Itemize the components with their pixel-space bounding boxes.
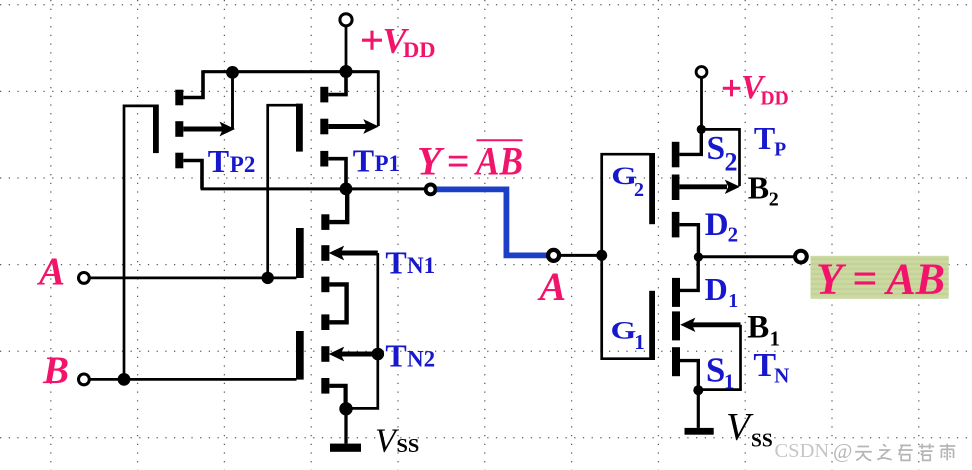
svg-text:P: P: [774, 140, 786, 161]
svg-text:A: A: [36, 250, 65, 293]
wire TP2 gate to node B: [124, 106, 154, 380]
svg-text:T: T: [208, 143, 229, 179]
svg-text:D: D: [705, 271, 728, 307]
junction dot NAND output: [340, 183, 353, 196]
junction dot TN source/VSS: [693, 385, 703, 395]
svg-text:B: B: [747, 310, 769, 346]
svg-text:N1: N1: [407, 253, 435, 278]
label Y = not AB: [417, 139, 523, 184]
node +VDD terminal (left NAND): [340, 14, 352, 26]
gate plate G2: [649, 153, 655, 224]
label TN1: [385, 244, 435, 280]
svg-text:B: B: [42, 349, 69, 392]
transistor TP (inverter): [672, 127, 740, 257]
svg-text:G: G: [611, 317, 637, 345]
wire TP1 gate to node A: [268, 105, 297, 278]
svg-text:D: D: [705, 207, 729, 243]
wire blue net NAND output to inverter input: [437, 189, 548, 255]
node NAND output terminal: [426, 185, 436, 195]
svg-text:N: N: [774, 363, 789, 387]
svg-text:1: 1: [634, 330, 645, 354]
svg-text:N2: N2: [407, 347, 435, 372]
svg-text:Y = AB: Y = AB: [816, 255, 945, 304]
wire VDD stem (inverter): [700, 78, 703, 129]
ground VSS bar (left): [330, 444, 361, 452]
transistor TP1: [296, 70, 379, 189]
junction dot VDD rail / TP1 source: [340, 65, 353, 78]
ground VSS bar (inverter): [685, 428, 714, 435]
wire inverter output: [698, 255, 794, 258]
label G2: [611, 162, 644, 201]
node +VDD terminal (inverter): [696, 67, 707, 78]
label G1: [611, 317, 645, 354]
svg-text:A: A: [537, 264, 567, 309]
wire VSS stem (inverter): [697, 390, 700, 428]
wire inverter input: [559, 254, 602, 257]
svg-text:1: 1: [724, 369, 735, 393]
svg-text:DD: DD: [403, 37, 436, 62]
svg-text:S: S: [706, 351, 725, 390]
label B1: [747, 310, 780, 351]
label B2: [748, 170, 779, 211]
wire gate G1 net: [602, 255, 650, 358]
svg-text:T: T: [754, 120, 775, 156]
wire VDD top rail: [203, 70, 378, 73]
label S1: [706, 351, 735, 394]
node input terminal B: [79, 374, 90, 385]
svg-text:2: 2: [769, 189, 779, 211]
junction dot VSS node: [339, 402, 352, 415]
wire input B to TN2 gate: [90, 378, 297, 381]
label +VDD (inverter): [723, 69, 789, 110]
wire input A to TN1 gate: [90, 277, 297, 280]
label TP2: [208, 143, 256, 179]
junction dot A / TP1 gate: [262, 272, 274, 284]
junction dot VDD rail / TP2 source-body: [226, 66, 239, 79]
label VSS (inverter): [726, 405, 773, 451]
label +VDD (left): [362, 21, 436, 62]
node input terminal A: [79, 273, 90, 284]
svg-text:DD: DD: [761, 89, 789, 110]
svg-text:=: =: [447, 139, 470, 184]
transistor TN1: [296, 192, 378, 322]
svg-text:2: 2: [728, 223, 739, 247]
label Y = AB output highlight: [811, 255, 949, 304]
wire VSS stem (left): [344, 409, 347, 444]
svg-text:T: T: [385, 338, 406, 374]
label D1: [705, 271, 739, 312]
wire TN body to source: [698, 325, 740, 390]
label VSS (left): [375, 422, 419, 459]
transistor TP2: [153, 70, 235, 189]
label TP1: [353, 142, 400, 178]
label TN (inverter): [753, 347, 789, 388]
watermark CSDN: [775, 439, 956, 463]
svg-text:T: T: [385, 244, 406, 280]
label D2: [705, 207, 738, 246]
svg-text:T: T: [353, 142, 374, 178]
node inverter output terminal: [795, 251, 807, 263]
label TN2: [385, 338, 435, 374]
svg-text:2: 2: [634, 179, 644, 201]
svg-text:1: 1: [728, 290, 738, 312]
svg-text:T: T: [753, 347, 776, 384]
transistor TN2: [296, 314, 378, 408]
svg-text:SS: SS: [751, 430, 773, 451]
wire gate G2 net: [602, 154, 650, 255]
wire TN1/TN2 body to source rail: [346, 253, 378, 408]
svg-text:SS: SS: [397, 435, 420, 457]
junction dot B / TP2 gate: [118, 373, 131, 386]
svg-text:P1: P1: [375, 151, 401, 176]
junction dot TP source/body: [697, 125, 706, 134]
svg-text:@: @: [833, 439, 852, 463]
node inverter input terminal: [548, 250, 559, 261]
wire VDD stem (left): [345, 26, 348, 72]
svg-text:P2: P2: [230, 152, 256, 177]
transistor TN (inverter): [672, 257, 741, 390]
svg-text:S: S: [707, 130, 726, 167]
svg-text:2: 2: [725, 148, 738, 177]
wire NAND output rail: [201, 187, 426, 190]
svg-text:Y: Y: [417, 139, 445, 184]
junction dot inverter input node A: [596, 250, 607, 261]
svg-text:V: V: [726, 405, 754, 448]
svg-text:CSDN: CSDN: [775, 440, 830, 462]
gate plate G1: [649, 291, 655, 360]
junction dot inverter output: [694, 252, 703, 261]
svg-text:AB: AB: [473, 139, 523, 184]
junction dot TN2 body: [372, 348, 385, 361]
label TP (inverter): [754, 120, 786, 161]
label S2: [707, 130, 738, 177]
svg-text:B: B: [748, 170, 769, 206]
